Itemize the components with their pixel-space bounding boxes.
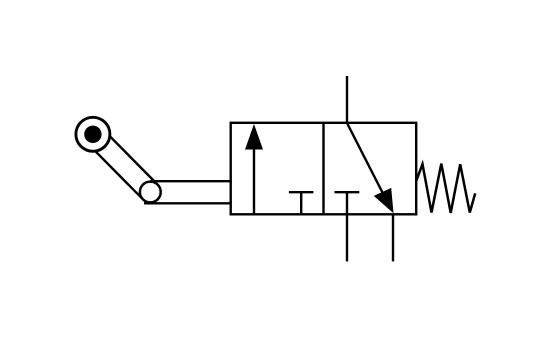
- top port line: [346, 76, 348, 123]
- wire lever rod top line: [150, 180, 231, 182]
- divider between position boxes: [322, 123, 324, 215]
- blocked port T symbol left box: stem: [300, 191, 302, 214]
- return spring zigzag: [416, 164, 475, 213]
- bottom port line 1: [346, 214, 348, 261]
- blocked port T symbol right box: bar: [335, 191, 360, 193]
- wire lever rod bottom line: [144, 202, 232, 204]
- flow path up-arrowhead (left box): [245, 124, 263, 150]
- roller circle: [76, 117, 110, 151]
- roller hub dot: [84, 126, 101, 143]
- diagonal flow path shaft (right box): [347, 123, 386, 199]
- wire lever arm upper line: [100, 127, 156, 184]
- blocked port T symbol right box: stem: [346, 191, 348, 214]
- wire lever arm lower line: [86, 141, 142, 197]
- bottom port line 2: [392, 214, 394, 261]
- diagonal flow path arrowhead (right box): [374, 188, 394, 213]
- pivot circle of lever: [140, 182, 161, 203]
- flow path up-arrow shaft (left box): [253, 148, 255, 214]
- valve body outline (two position boxes): [231, 123, 417, 215]
- blocked port T symbol left box: bar: [289, 191, 314, 193]
